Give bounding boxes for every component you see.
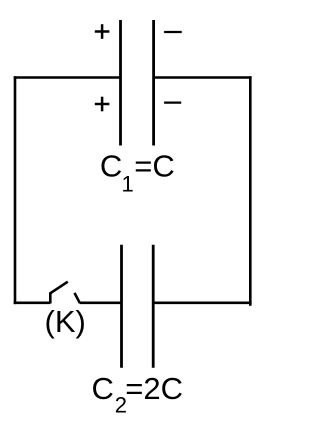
- svg-text:=2C: =2C: [125, 371, 183, 406]
- svg-text:C: C: [100, 149, 122, 184]
- svg-text:C: C: [92, 371, 114, 406]
- svg-text:1: 1: [122, 172, 134, 197]
- svg-text:=C: =C: [134, 149, 175, 184]
- svg-text:(K): (K): [45, 304, 86, 339]
